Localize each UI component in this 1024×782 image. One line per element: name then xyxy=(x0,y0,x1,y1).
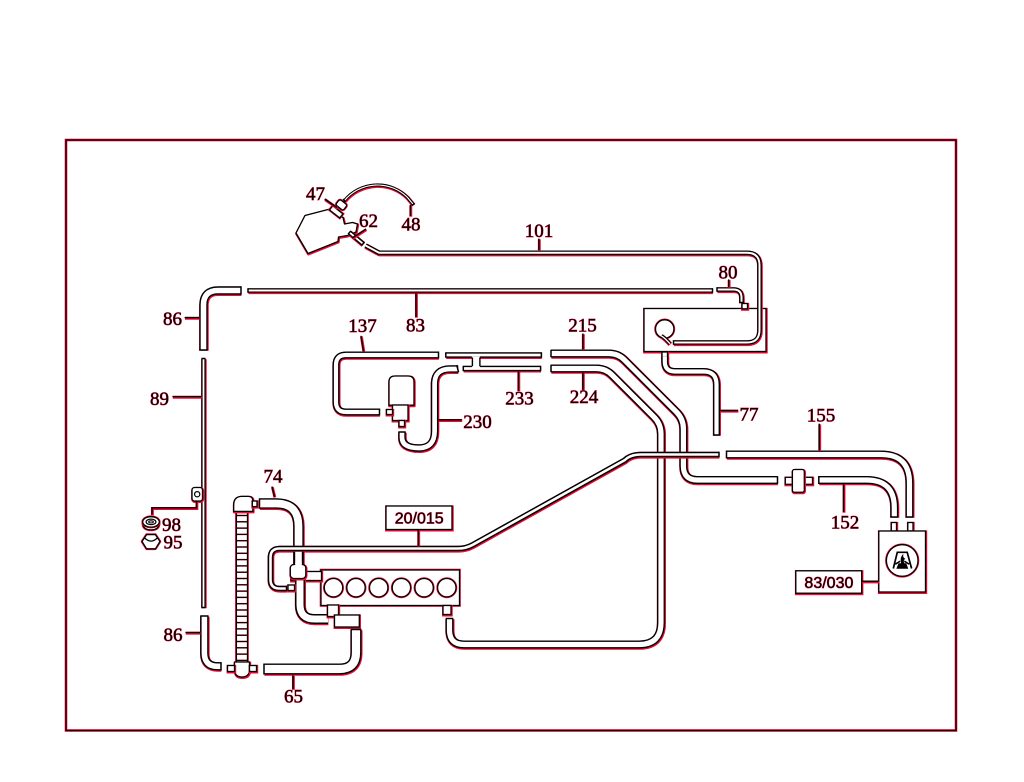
hose 101 xyxy=(366,246,760,344)
sleeve top fitting stub xyxy=(252,501,257,507)
svg-text:137: 137 xyxy=(348,316,377,337)
tick 152 xyxy=(842,484,845,513)
manifold pipe 20/015 xyxy=(271,455,720,590)
port under hose 80 xyxy=(742,304,748,310)
hose 83 xyxy=(248,288,713,295)
hose 215/224 end caps xyxy=(446,350,778,619)
hose 80 xyxy=(717,290,742,304)
hose 74 xyxy=(260,504,299,547)
svg-text:101: 101 xyxy=(525,221,554,242)
label box 20/015 xyxy=(386,506,452,530)
cable 89 xyxy=(201,359,207,609)
hose 74 end cap xyxy=(259,498,261,508)
tick 224 xyxy=(581,373,584,391)
hose 77 xyxy=(665,357,717,436)
svg-text:80: 80 xyxy=(719,263,738,284)
pipe 233 lower xyxy=(463,365,541,372)
hose 137 end caps xyxy=(380,352,439,416)
nut 95 xyxy=(142,535,160,549)
svg-text:215: 215 xyxy=(568,316,597,337)
hose 77 end cap xyxy=(713,434,720,436)
air pump symbol xyxy=(886,545,918,577)
svg-text:47: 47 xyxy=(306,184,325,205)
manifold pipe end caps xyxy=(287,452,720,592)
pipe 233 upper xyxy=(446,352,542,359)
fitting nub xyxy=(288,585,295,591)
purge valve body xyxy=(389,376,414,406)
sleeve bottom left stub xyxy=(228,666,235,673)
svg-text:20/015: 20/015 xyxy=(395,510,444,527)
hose 74 stub xyxy=(293,552,305,565)
tick 233 xyxy=(517,372,520,392)
clip eyelet xyxy=(195,492,200,497)
hose 152 xyxy=(819,480,895,518)
hose 152 end caps xyxy=(819,476,899,517)
233 tee stub xyxy=(472,357,480,368)
connector 62 xyxy=(350,233,364,245)
dash 230 xyxy=(438,418,462,422)
pump left port xyxy=(891,523,897,532)
dash 77 xyxy=(720,409,738,413)
hose 86 top end caps xyxy=(199,286,241,350)
hose 101 end cap xyxy=(673,340,675,345)
engine block 20/015 xyxy=(321,570,460,606)
dash 86 bottom xyxy=(185,631,200,635)
hose 83 end caps xyxy=(248,288,713,293)
svg-text:152: 152 xyxy=(831,513,860,534)
svg-text:155: 155 xyxy=(807,406,836,427)
connector 47 xyxy=(330,206,343,218)
thermo valve box xyxy=(644,309,766,353)
tick 20/015 xyxy=(417,530,420,547)
corrugated sleeve xyxy=(236,510,247,663)
svg-text:89: 89 xyxy=(150,389,169,410)
svg-text:83: 83 xyxy=(406,316,425,337)
bracket body (part of 47/62 assembly) xyxy=(296,209,358,254)
border frame xyxy=(66,140,956,731)
purge valve lower xyxy=(393,405,409,421)
hose 65 xyxy=(264,630,356,670)
thermo fitting boss xyxy=(290,565,306,580)
leader 62 xyxy=(352,229,366,239)
purge valve side nub xyxy=(387,410,393,416)
boss/stub open joint xyxy=(295,563,302,567)
clip on cable 89 xyxy=(192,488,203,502)
coolant elbow pipe xyxy=(300,578,328,620)
tick 48 xyxy=(409,205,412,217)
pump right port xyxy=(908,523,914,532)
svg-text:224: 224 xyxy=(570,387,599,408)
tick 215 xyxy=(581,334,584,351)
grommet 98 xyxy=(143,517,160,530)
purge valve stem xyxy=(399,421,405,428)
svg-text:230: 230 xyxy=(463,412,492,433)
hose 230 xyxy=(402,369,458,449)
air pump box 83/030 xyxy=(879,531,926,593)
tick 80 xyxy=(727,279,730,288)
hose 86 bottom xyxy=(204,616,221,667)
tick 74 xyxy=(272,487,275,498)
svg-text:62: 62 xyxy=(359,211,378,232)
hose 48 end caps xyxy=(343,199,415,206)
svg-text:233: 233 xyxy=(505,389,534,410)
svg-text:86: 86 xyxy=(163,309,182,330)
svg-text:83/030: 83/030 xyxy=(804,575,853,592)
sleeve bottom fitting xyxy=(235,662,250,678)
inline valve right stub xyxy=(804,477,813,485)
leader 47 xyxy=(325,199,338,208)
tick 83/030 xyxy=(862,580,880,584)
hose 155 end caps xyxy=(727,451,914,518)
tick 137 xyxy=(361,336,364,352)
engine bottom port xyxy=(443,606,451,616)
hose 80 end caps xyxy=(717,287,744,302)
inline valve left stub xyxy=(785,477,793,485)
sleeve top fitting xyxy=(234,496,254,512)
svg-text:86: 86 xyxy=(164,625,183,646)
tick 65 xyxy=(292,675,295,690)
hose 137 xyxy=(336,355,439,413)
svg-text:48: 48 xyxy=(402,215,421,236)
cable 89 end caps xyxy=(202,359,206,608)
svg-text:65: 65 xyxy=(284,687,303,708)
thermo valve circle xyxy=(656,320,674,338)
hose 224 xyxy=(450,369,662,646)
sleeve bottom right stub xyxy=(250,666,257,673)
pipe 233 end caps xyxy=(446,352,542,371)
fitting bar xyxy=(291,572,322,582)
svg-text:74: 74 xyxy=(264,467,284,488)
hose 65 end caps xyxy=(264,630,362,675)
dash 89 xyxy=(172,395,202,399)
label box 83/030 xyxy=(796,571,862,594)
tick 101 xyxy=(537,239,540,251)
hose 230 end caps xyxy=(398,365,458,432)
hose 48 xyxy=(345,185,414,205)
elbow step block xyxy=(328,605,339,617)
svg-text:95: 95 xyxy=(164,533,183,554)
lower fitting xyxy=(335,615,360,628)
hose 86 top xyxy=(204,291,242,351)
inline valve body xyxy=(792,470,804,494)
svg-text:77: 77 xyxy=(740,405,759,426)
engine cylinders xyxy=(324,579,456,597)
hose 86 bottom end caps xyxy=(200,616,221,671)
connector 62 end caps xyxy=(348,231,364,246)
leader line to 98 xyxy=(152,501,197,515)
valve outlet hook xyxy=(661,336,670,345)
hose 155 xyxy=(727,455,910,518)
hose 215 xyxy=(551,354,778,481)
tick 155 xyxy=(818,424,821,451)
port under box (hose 77) xyxy=(662,352,668,358)
tick 83 xyxy=(415,293,418,318)
dash 86 top xyxy=(185,316,200,320)
